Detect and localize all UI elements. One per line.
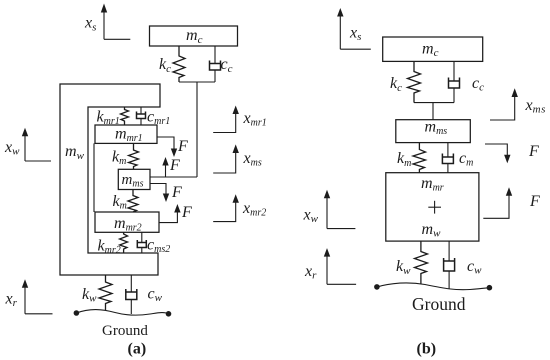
link wire m_mr1 to m_mr2 (a) xyxy=(93,143,95,212)
spring k_m lower (a) xyxy=(128,190,138,213)
ground end dot left (b) xyxy=(374,284,380,290)
spring k_w (a) xyxy=(99,275,112,311)
force arrow F down from m_ms (a) xyxy=(150,184,169,203)
mass m_ms (b) xyxy=(396,120,471,143)
damper c_mr1 (a) xyxy=(137,107,146,125)
suspension bottom bar (a) xyxy=(179,81,215,83)
mass block m_mr + m_w (b) xyxy=(386,173,479,241)
svg-text:(b): (b) xyxy=(417,341,437,358)
svg-text:F: F xyxy=(169,157,180,174)
axis marker x_ms (b) xyxy=(490,88,518,120)
axis marker x_r (b) xyxy=(324,248,356,284)
spring k_m (b) xyxy=(413,143,426,173)
axis marker x_mr1 (a) xyxy=(213,106,239,133)
spring k_mr1 (a) xyxy=(121,107,129,125)
svg-text:xms: xms xyxy=(243,150,262,169)
svg-text:Ground: Ground xyxy=(102,323,148,339)
axis marker x_ms (a) xyxy=(213,144,239,173)
svg-text:xmr2: xmr2 xyxy=(242,200,266,219)
mass m_ms (a) xyxy=(118,169,150,189)
suspension bottom bar (b) xyxy=(414,102,454,104)
svg-text:mms: mms xyxy=(425,119,448,138)
wire to m_ms (b) xyxy=(432,103,434,120)
svg-text:xw: xw xyxy=(4,139,20,158)
svg-text:cc: cc xyxy=(472,75,484,94)
ground end dot right (a) xyxy=(166,311,172,317)
wire m_ms to suspension link (a) xyxy=(150,176,197,178)
spring k_c (a) xyxy=(173,46,185,82)
svg-text:mms: mms xyxy=(122,172,144,190)
svg-text:F: F xyxy=(528,143,539,160)
svg-text:F: F xyxy=(177,138,188,155)
svg-text:kc: kc xyxy=(159,56,171,75)
svg-text:xr: xr xyxy=(5,291,18,310)
force marker F down (b) xyxy=(485,144,511,163)
damper c_m (b) xyxy=(442,143,453,173)
svg-text:kw: kw xyxy=(82,286,97,305)
axis marker x_s (a) xyxy=(101,4,131,40)
axis marker x_mr2 (a) xyxy=(213,194,239,221)
svg-text:kmr1: kmr1 xyxy=(97,109,120,128)
svg-text:Ground: Ground xyxy=(412,294,466,314)
axis marker x_r (a) xyxy=(22,279,53,314)
svg-text:km: km xyxy=(112,149,126,168)
svg-text:mc: mc xyxy=(186,27,203,46)
wire from suspension to m_ms (a) xyxy=(196,82,198,177)
svg-text:F: F xyxy=(181,204,192,221)
force marker F up (b) xyxy=(483,187,512,218)
svg-text:kc: kc xyxy=(390,75,402,94)
svg-text:cmr1: cmr1 xyxy=(147,109,170,128)
svg-text:(a): (a) xyxy=(128,341,147,358)
svg-text:mmr2: mmr2 xyxy=(114,215,142,234)
damper c_c (a) xyxy=(210,46,221,82)
damper c_w (b) xyxy=(444,241,455,289)
svg-text:cm: cm xyxy=(459,150,473,169)
mass m_c (b) xyxy=(383,37,483,61)
damper c_c (b) xyxy=(449,61,460,102)
mass m_w outer C-frame (a) xyxy=(60,84,160,275)
ground end dot right (b) xyxy=(487,285,493,291)
plus sign (b) xyxy=(428,201,441,214)
svg-text:xmr1: xmr1 xyxy=(243,110,267,129)
mass m_mr1 (a) xyxy=(95,125,157,143)
svg-text:xs: xs xyxy=(349,25,361,44)
svg-text:cw: cw xyxy=(148,286,163,305)
svg-text:cw: cw xyxy=(467,258,482,277)
svg-text:xms: xms xyxy=(525,97,547,116)
svg-text:mmr1: mmr1 xyxy=(115,126,143,145)
svg-text:xr: xr xyxy=(304,263,317,282)
svg-text:xs: xs xyxy=(84,15,96,34)
svg-text:mw: mw xyxy=(65,143,85,162)
spring k_w (b) xyxy=(415,241,428,283)
damper c_ms2 (a) xyxy=(137,232,146,253)
ground wave (a) xyxy=(76,310,168,316)
mass m_c (a) xyxy=(150,26,238,46)
axis marker x_s (b) xyxy=(337,8,371,49)
damper c_w (a) xyxy=(126,275,137,314)
force arrow F down from m_mr1 (a) xyxy=(157,137,177,157)
spring k_m upper (a) xyxy=(129,143,139,169)
svg-text:kw: kw xyxy=(396,258,411,277)
force arrow F up from m_mr2 (a) xyxy=(159,204,181,223)
svg-text:F: F xyxy=(171,184,182,201)
axis marker x_w (a) xyxy=(22,128,51,161)
svg-text:cms2: cms2 xyxy=(147,237,170,256)
svg-text:km: km xyxy=(113,193,127,212)
force arrow F up to m_ms (a) xyxy=(162,157,168,177)
mass m_mr2 (a) xyxy=(95,212,159,232)
svg-text:cc: cc xyxy=(221,56,233,75)
axis marker x_w (b) xyxy=(324,190,356,229)
svg-text:xw: xw xyxy=(303,207,319,226)
spring k_c (b) xyxy=(408,61,421,102)
svg-text:mc: mc xyxy=(422,41,439,60)
svg-text:mw: mw xyxy=(422,221,442,240)
ground wave (b) xyxy=(377,283,490,290)
svg-text:F: F xyxy=(529,193,540,210)
svg-text:km: km xyxy=(397,150,411,169)
ground end dot left (a) xyxy=(74,310,80,316)
spring k_mr2 (a) xyxy=(120,232,128,253)
svg-text:kmr2: kmr2 xyxy=(98,238,121,257)
svg-text:mmr: mmr xyxy=(421,175,444,194)
